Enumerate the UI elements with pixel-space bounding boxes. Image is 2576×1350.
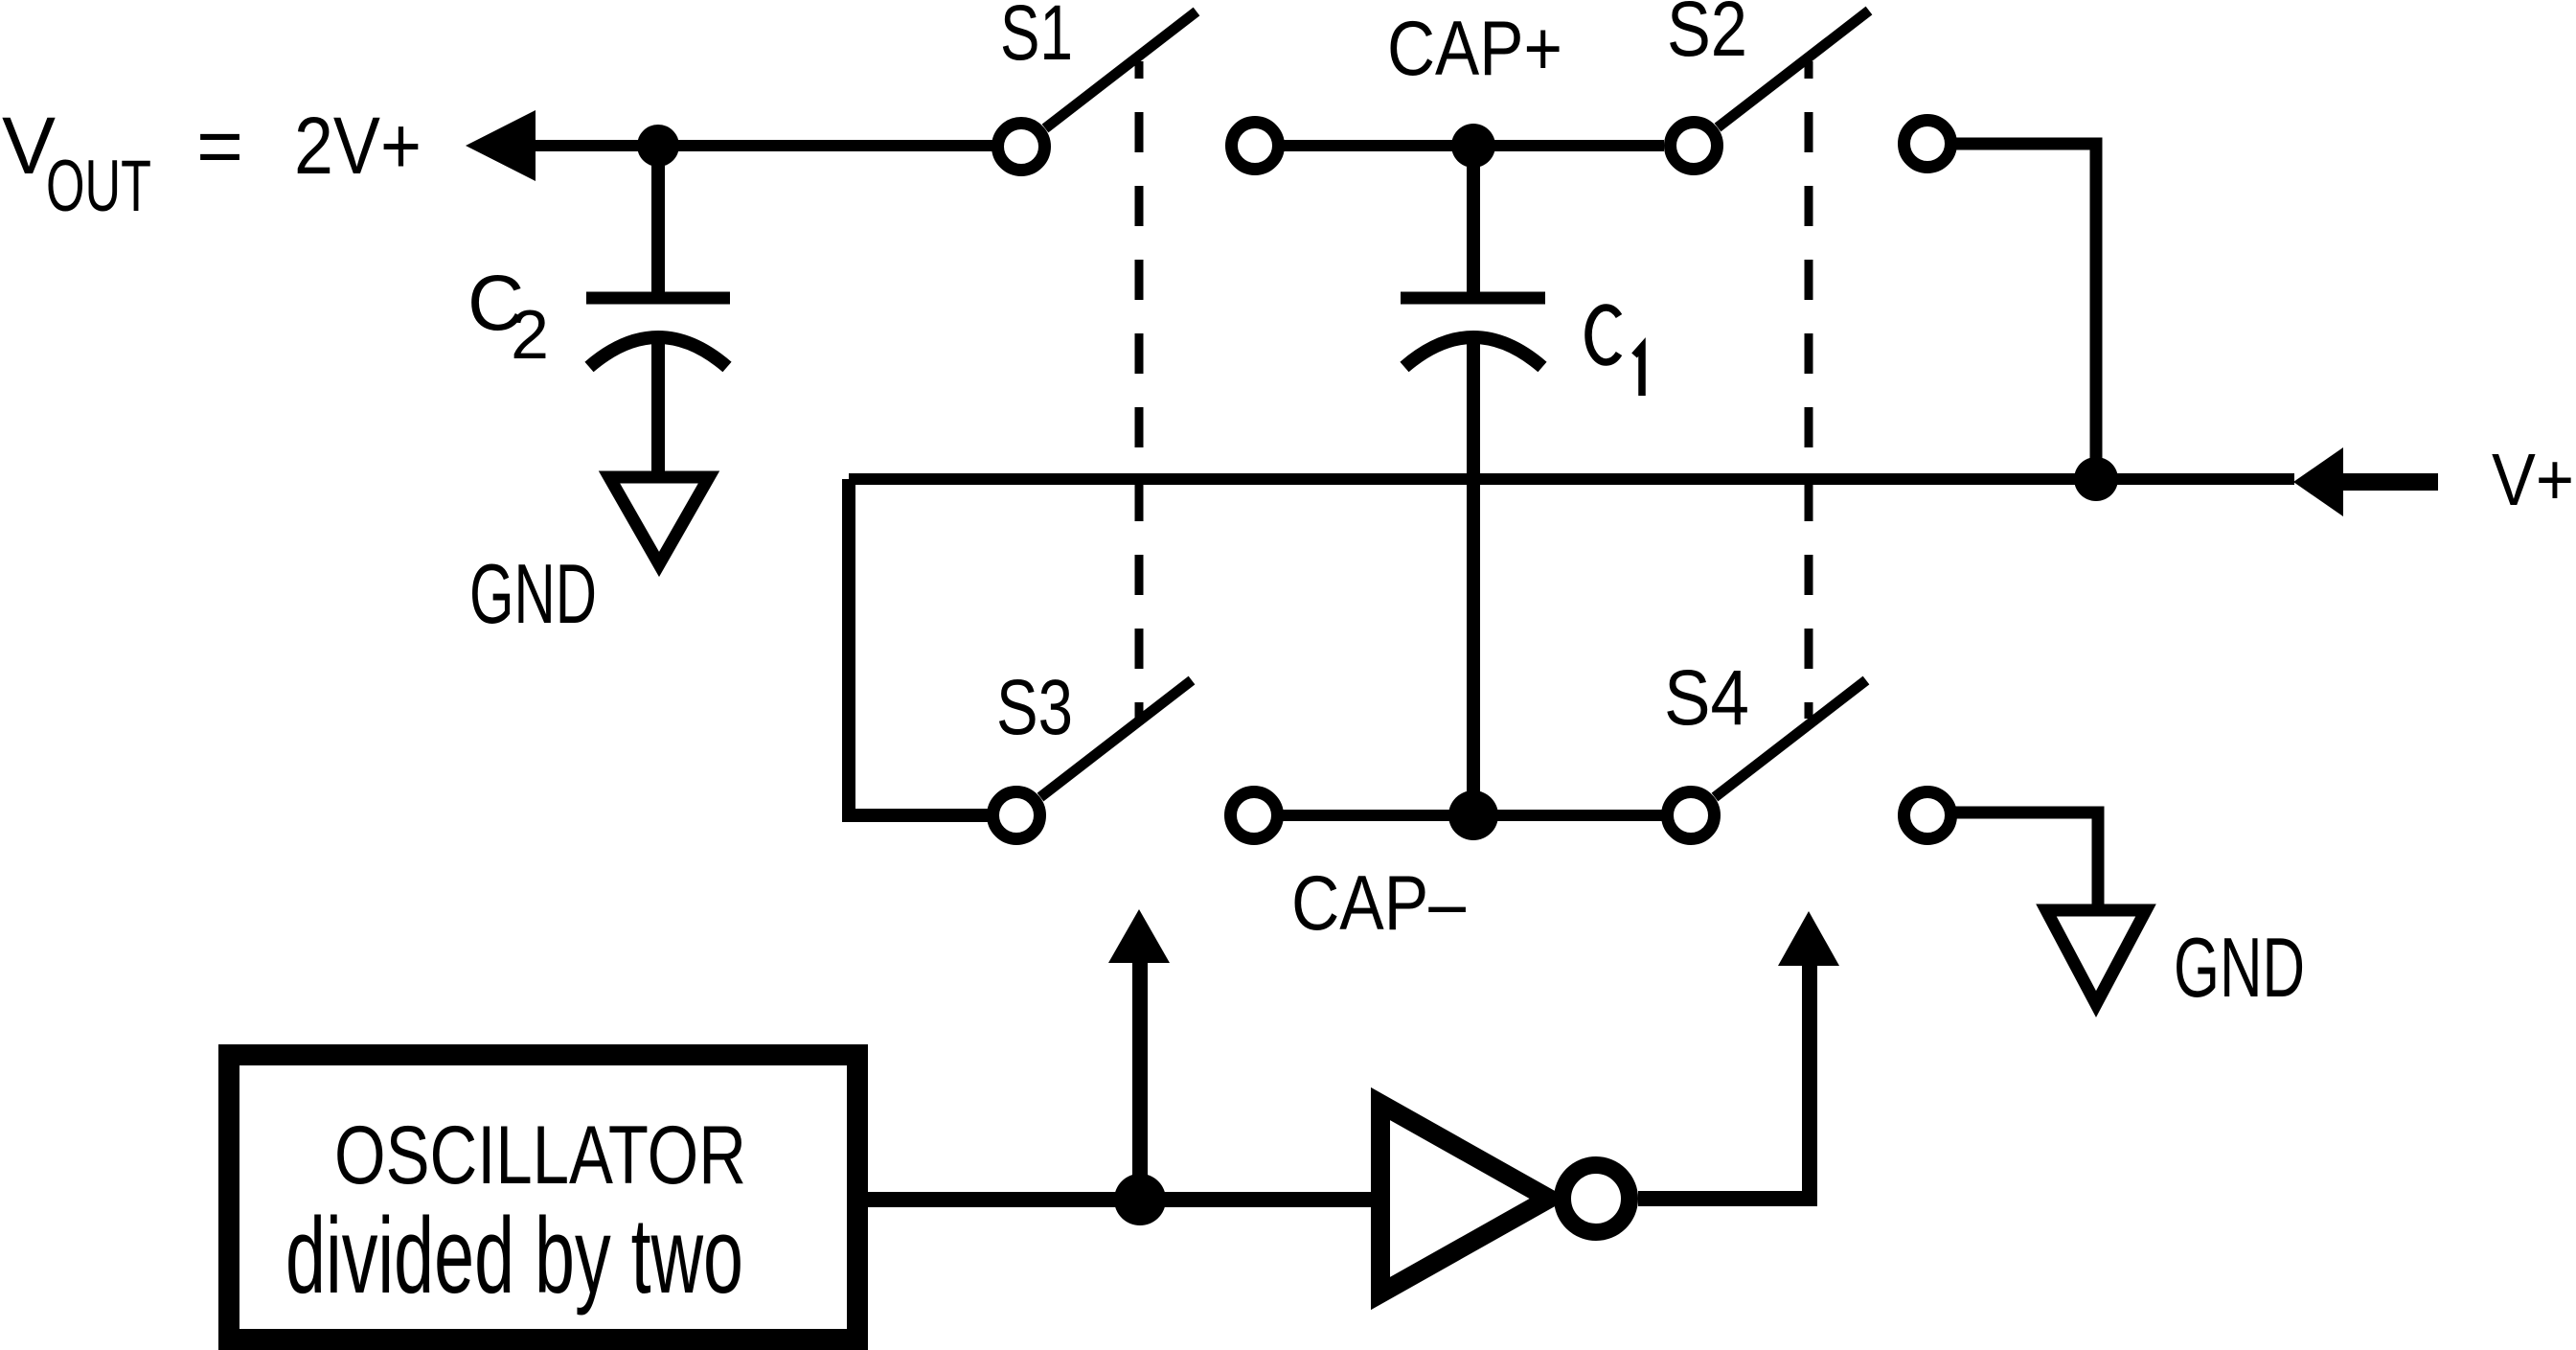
- svg-text:2V+: 2V+: [294, 101, 422, 191]
- switch S1 arm: [1045, 11, 1197, 128]
- svg-text:divided by two: divided by two: [285, 1196, 743, 1316]
- switch S2 fixed terminal circle: [1904, 121, 1951, 168]
- svg-text:GND: GND: [2174, 920, 2305, 1015]
- inverter control arrow to S4: [1802, 964, 1817, 1206]
- junction oscillator output: [1114, 1174, 1166, 1225]
- capacitor C1 label: [1588, 308, 1642, 396]
- capacitor C1 top plate: [1401, 292, 1545, 305]
- svg-text:2: 2: [511, 297, 549, 374]
- switch S2 arm: [1718, 11, 1869, 127]
- switch S4 contact circle: [1668, 792, 1715, 839]
- svg-text:S2: S2: [1667, 0, 1747, 73]
- wire inverter output: [1638, 1191, 1817, 1206]
- svg-text:S3: S3: [996, 664, 1073, 751]
- capacitor C2 lead top: [651, 146, 665, 294]
- wire CAP- to S4: [1496, 810, 1668, 821]
- inverter U1 triangle: [1380, 1104, 1549, 1293]
- oscillator box: [229, 1055, 857, 1339]
- dashed control line S1/S3: [1135, 61, 1144, 719]
- switch S3 fixed terminal circle: [1231, 792, 1278, 839]
- capacitor C1 lead bottom to CAP-: [1467, 339, 1480, 815]
- node CAP+: [1451, 124, 1495, 168]
- switch S1 contact circle: [998, 124, 1045, 171]
- switch S3 arm: [1040, 680, 1192, 797]
- wire S1 to CAP+: [1279, 140, 1452, 151]
- capacitor C1 curved plate: [1404, 337, 1542, 367]
- oscillator control arrow to S3: [1132, 961, 1148, 1200]
- V+ rail junction: [2074, 457, 2118, 501]
- VOUT output arrow: [466, 110, 536, 181]
- capacitor C1 lead top: [1467, 146, 1480, 294]
- V+ lead stub: [2343, 473, 2438, 491]
- wire S4 terminal to ground: [1951, 812, 2098, 904]
- svg-text:OSCILLATOR: OSCILLATOR: [334, 1110, 746, 1201]
- ground symbol left: [609, 477, 709, 564]
- capacitor C2 top plate: [586, 292, 730, 305]
- V+ input arrow: [2293, 447, 2343, 516]
- svg-text:GND: GND: [469, 546, 597, 641]
- capacitor C2 lead bottom: [651, 339, 665, 473]
- capacitor C2 label: [467, 260, 549, 374]
- svg-text:S4: S4: [1664, 654, 1749, 742]
- wire VOUT to S1: [529, 140, 992, 151]
- switch S4 fixed terminal circle: [1904, 792, 1951, 839]
- svg-text:V+: V+: [2492, 439, 2574, 521]
- svg-text:=: =: [196, 101, 243, 191]
- svg-text:CAP–: CAP–: [1291, 860, 1467, 947]
- node VOUT label: [2, 101, 422, 227]
- switch S3 contact circle: [993, 792, 1040, 839]
- wire S2 terminal to V+ rail: [1951, 144, 2096, 484]
- switch S4 arm: [1715, 680, 1866, 797]
- switch S2 contact circle: [1671, 123, 1718, 170]
- wire S3 terminal to CAP-: [1278, 810, 1452, 821]
- ground symbol right: [2046, 910, 2146, 1004]
- wire oscillator to inverter: [868, 1192, 1374, 1207]
- svg-text:S1: S1: [1000, 0, 1073, 77]
- inverter U1 bubble: [1562, 1165, 1630, 1232]
- wire V+ rail corner down to S3: [849, 479, 988, 815]
- capacitor C2 curved plate: [589, 337, 727, 367]
- V+ rail: [849, 473, 2294, 485]
- svg-text:CAP+: CAP+: [1387, 6, 1562, 92]
- wire CAP+ to S2: [1494, 140, 1664, 151]
- svg-text:OUT: OUT: [46, 146, 151, 227]
- switch S1 fixed terminal circle: [1232, 123, 1279, 170]
- node junction VOUT/C2: [637, 125, 679, 167]
- node CAP-: [1448, 790, 1498, 840]
- dashed control line S2/S4: [1805, 61, 1813, 719]
